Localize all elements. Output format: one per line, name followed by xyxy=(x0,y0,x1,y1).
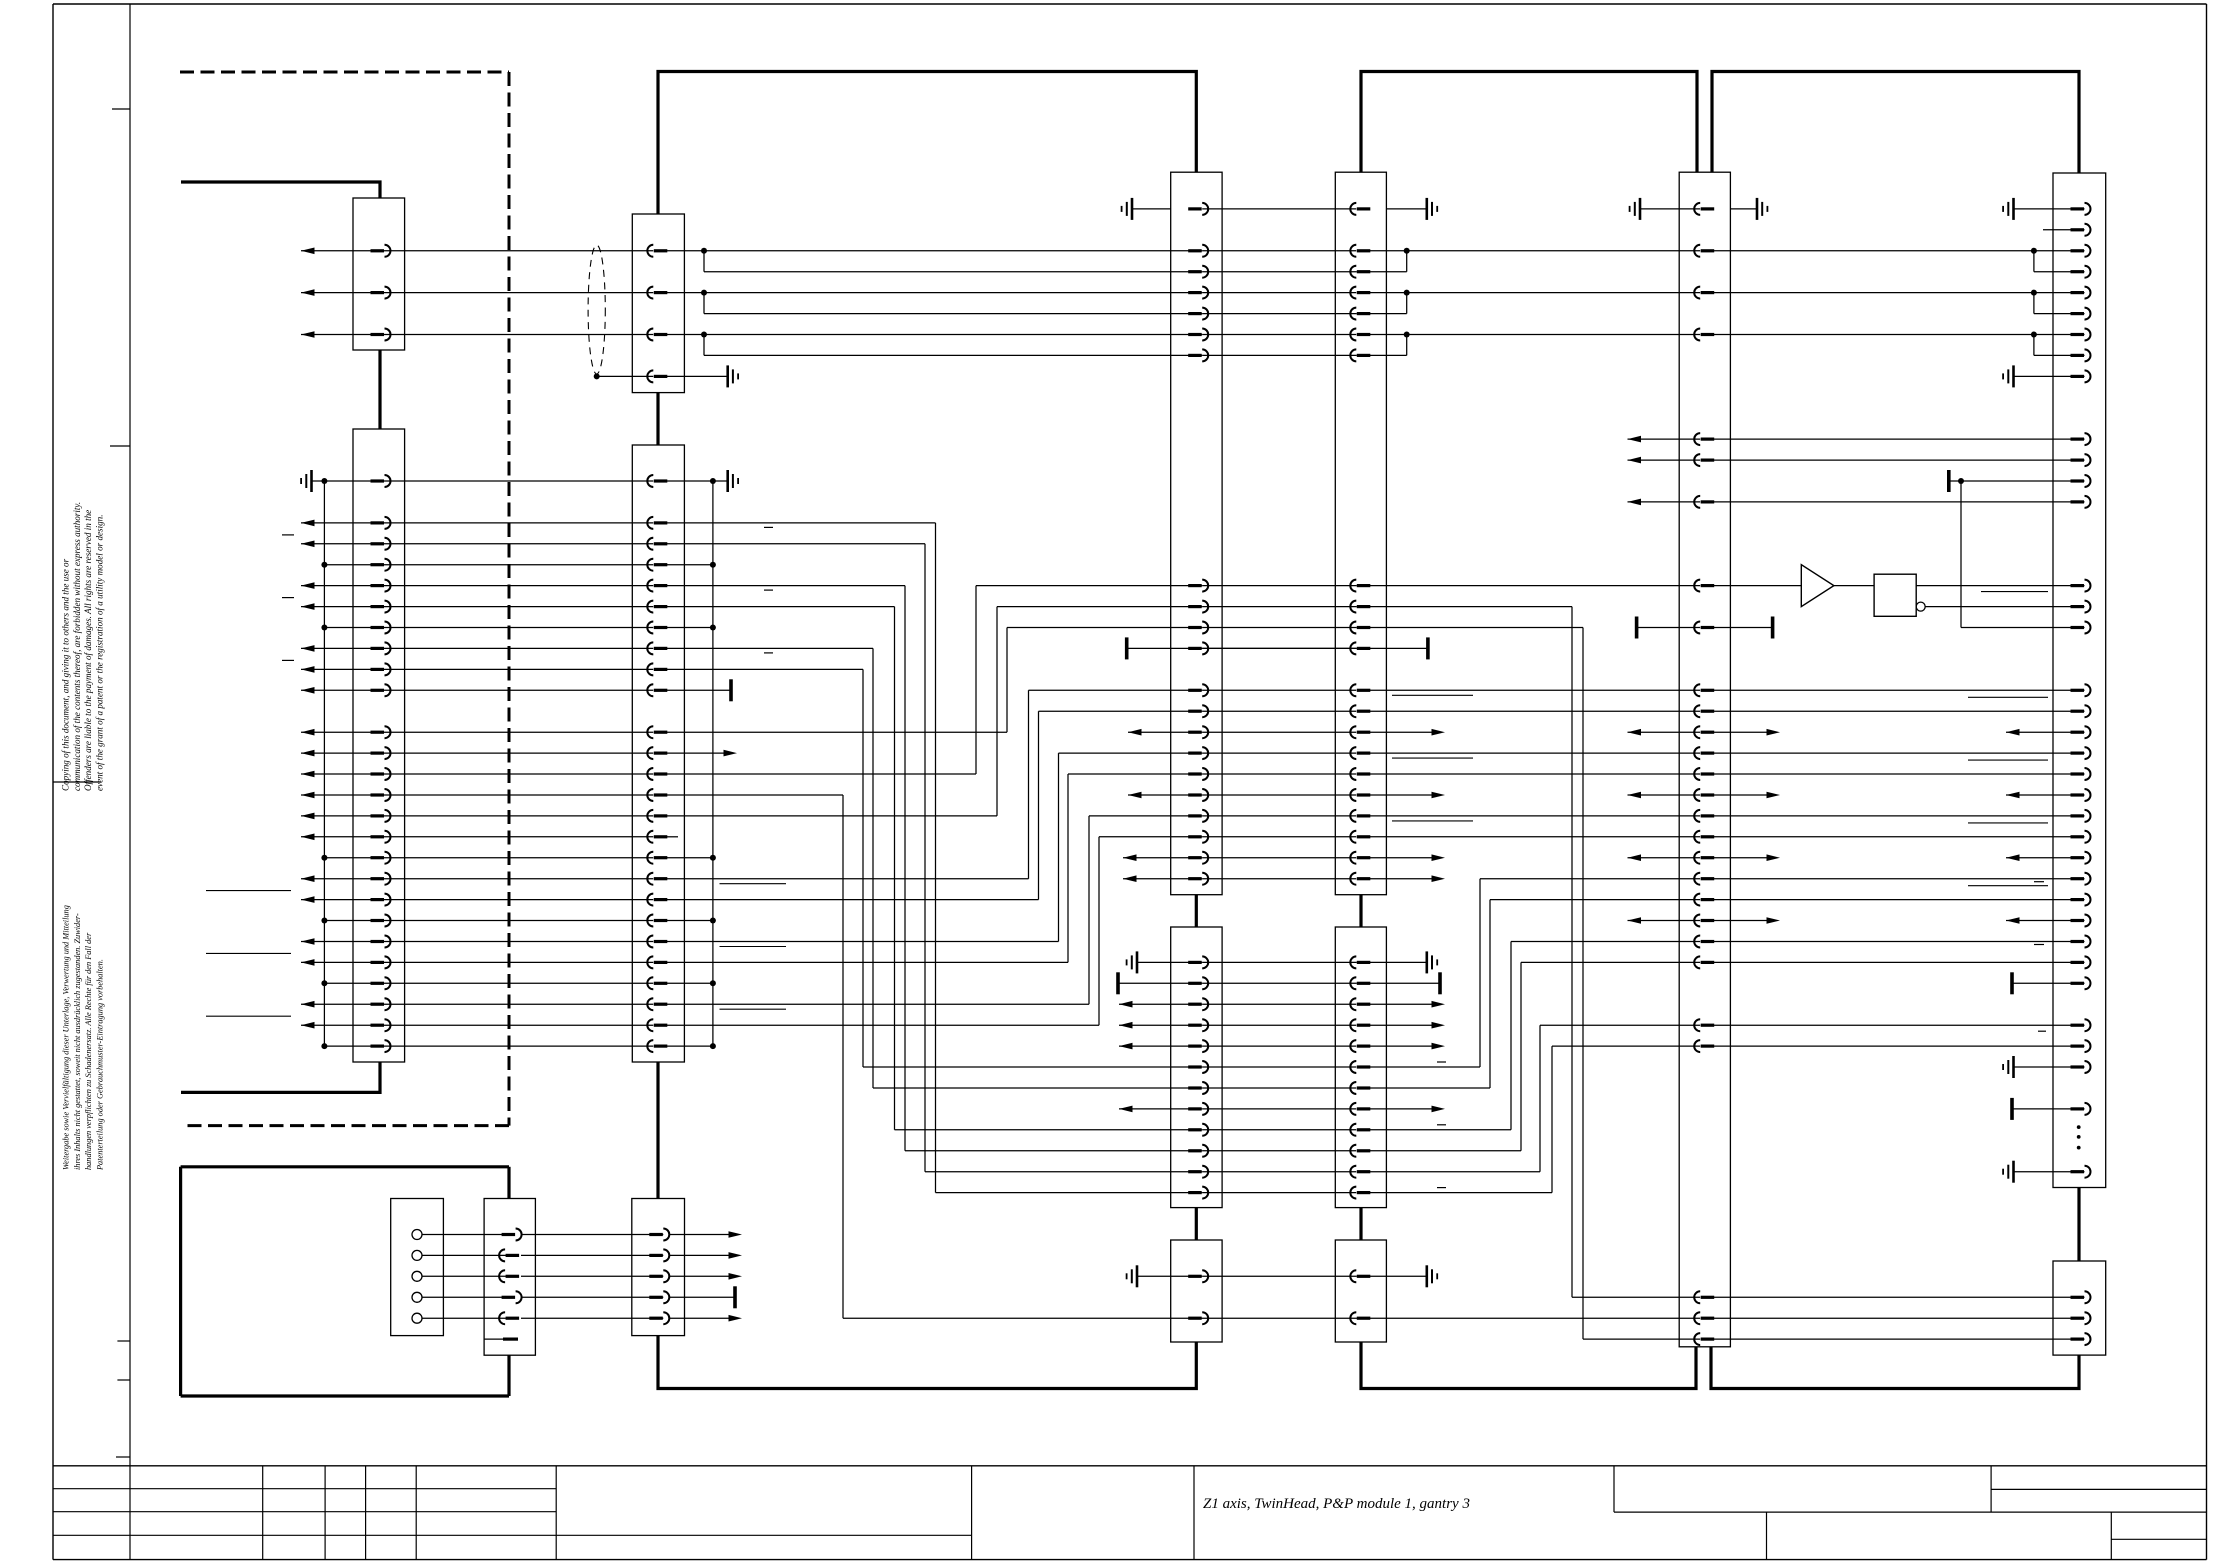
wire X1 row 23 arrow xyxy=(301,959,315,966)
wire X1 row 20 arrow xyxy=(301,896,315,903)
wire X1-X2 row 7 xyxy=(385,627,654,629)
wire XC-XD row 26 xyxy=(1713,1024,2084,1026)
wire jog -7 to -6 xyxy=(703,335,705,356)
wire X1-X2 row 12 xyxy=(385,731,654,733)
ground right of X2 row 0 xyxy=(666,480,727,482)
pins X2 top xyxy=(654,249,668,252)
wire XC row 18 right arrow xyxy=(1713,857,1768,859)
wire staircase X2 8 to XA2 29 xyxy=(666,647,873,649)
shield bus right vertical xyxy=(712,481,714,1046)
wire XA-XB row 17 xyxy=(1202,836,1356,838)
wire stub XD -12 xyxy=(2043,229,2085,231)
terminal circle 5 xyxy=(412,1313,422,1323)
terminator XB row 8 right xyxy=(1356,647,1428,649)
wire X1-X2 row 2 xyxy=(385,522,654,524)
pins X2 tall xyxy=(654,479,668,482)
ground left of XD xyxy=(2014,208,2085,210)
wire long net row 15 to row 40 xyxy=(666,794,843,796)
wire XD row 21 left arrow xyxy=(2006,917,2020,924)
pins XB3 xyxy=(1357,1275,1371,1278)
wire XB row 7 downstair xyxy=(1356,627,1583,629)
pins XS2 xyxy=(649,1233,663,1236)
wire XC-XD row 23 xyxy=(1713,961,2084,963)
wire XB2 row 27 arrow xyxy=(1369,1045,1433,1047)
wire X1-X2 row 5 xyxy=(385,585,654,587)
wire XD jog 0 to 7 xyxy=(1960,481,1962,628)
wire jog XB -11 to -10 xyxy=(1406,251,1408,272)
wire XA2-XB2 row 26 xyxy=(1202,1024,1356,1026)
wire XB row 15 arrow stub xyxy=(1369,794,1433,796)
wire X1 row 6 arrow xyxy=(301,603,315,610)
cable bus X2a-X2b xyxy=(656,393,659,445)
wire shield row 4 right xyxy=(666,564,713,566)
wire XS2 row 36 arrow xyxy=(669,1234,731,1236)
terminal circle 1 xyxy=(412,1230,422,1240)
wire jog XC -9 to -8 xyxy=(2033,293,2035,314)
wire shield row 7 right xyxy=(666,627,713,629)
wire X2 row -5 to ground xyxy=(666,375,727,377)
wire XC-XD row -1 xyxy=(1713,459,2084,461)
cable bus X1 to X1b xyxy=(378,350,381,429)
wire XA2-XB2 row 29 xyxy=(1202,1087,1356,1089)
wire staircase X2 20 to XA 11 xyxy=(666,899,1038,901)
wire XB-XC row -7 xyxy=(1369,334,1700,336)
ground left XA2 row 23 xyxy=(1136,951,1139,973)
connector XB2 xyxy=(1335,927,1386,1208)
wire XA row 12 arrow stub xyxy=(1128,729,1142,736)
wire XA2 row 25 arrow xyxy=(1119,1001,1133,1008)
wire X1-X2 row 4 xyxy=(385,564,654,566)
connector XA tall xyxy=(1171,172,1222,895)
wire X1-X2 row 22 xyxy=(385,941,654,943)
connector XC xyxy=(1679,172,1730,1347)
wire X1 row 26 arrow xyxy=(301,1022,315,1029)
svg-text:Patenterteilung oder Gebrauchm: Patenterteilung oder Gebrauchmuster-Eint… xyxy=(95,959,104,1171)
label underline row 16 xyxy=(1392,820,1473,822)
wire XS2 row 38 arrow xyxy=(669,1275,731,1277)
wire XB row 12 arrow stub xyxy=(1369,731,1433,733)
svg-text:Z1 axis, TwinHead, P&P module: Z1 axis, TwinHead, P&P module 1, gantry … xyxy=(1203,1496,1470,1512)
title block xyxy=(53,1465,2207,1467)
wire X1 row 14 arrow xyxy=(301,771,315,778)
wire XA2-XB2 row 30 xyxy=(1202,1108,1356,1110)
wire XA-XB row 14 xyxy=(1202,773,1356,775)
wire XA2-XB2 row 31 xyxy=(1202,1129,1356,1131)
wire U2-XD row 6 xyxy=(1925,606,2084,608)
connector XS2 xyxy=(632,1199,685,1336)
wire XB2 row 25 arrow xyxy=(1369,1003,1433,1005)
wire XB-XC row 13 xyxy=(1369,752,1700,754)
pins XS1 xyxy=(502,1233,515,1236)
bottom bus right segment xyxy=(1711,1347,2079,1389)
pins XA3 xyxy=(1188,1275,1202,1278)
wire XD row 18 left arrow xyxy=(2006,854,2020,861)
polarity dash marks left xyxy=(282,534,294,536)
wire jog XC -11 to -10 xyxy=(2033,251,2035,272)
wire shield row 18 left xyxy=(324,857,384,859)
buffer U1 xyxy=(1801,565,1834,607)
wire staircase X2 23 to XA 14 xyxy=(666,961,1068,963)
wire XA2 row 27 arrow xyxy=(1119,1043,1133,1050)
wire XS1-XS2 row 36 xyxy=(521,1234,663,1236)
label underline row 13 xyxy=(1392,757,1473,759)
wire shield row 4 left xyxy=(324,564,384,566)
wire X1-X2 row 13 xyxy=(385,752,654,754)
wire staircase X2 3 to XA2 33 xyxy=(666,543,925,545)
cable bus T2 top xyxy=(1361,72,1697,173)
wire XB row 6 downstair xyxy=(1356,606,1572,608)
pin XS1 row 41 spare xyxy=(484,1338,503,1340)
svg-text:ihres Inhalts nicht gestattet,: ihres Inhalts nicht gestattet, soweit ni… xyxy=(73,913,82,1170)
connector XB tall xyxy=(1335,172,1386,895)
svg-text:event of the grant of a patent: event of the grant of a patent or the re… xyxy=(94,515,104,792)
wire XD row 15 left arrow xyxy=(2006,792,2020,799)
connector XD xyxy=(2053,173,2106,1188)
wire XC-XD row 13 xyxy=(1713,752,2084,754)
wire X1-X2 row 19 xyxy=(385,878,654,880)
pins XB2 xyxy=(1357,961,1371,964)
wire X1-X2 row 6 xyxy=(385,606,654,608)
wire staircase X2 9 to XA2 28 xyxy=(666,668,863,670)
cable bus XA stubs xyxy=(1195,895,1198,927)
label underline row 5 xyxy=(1981,591,2048,593)
wire XB-XC row -9 xyxy=(1369,292,1700,294)
ground left of XC xyxy=(1640,208,1700,210)
wire staircase X2 25 to XA 16 xyxy=(666,1003,1089,1005)
wire XC-XD row -9 xyxy=(1713,292,2084,294)
wire buffer to U2 xyxy=(1834,585,1874,587)
shield capsule dashed xyxy=(588,245,605,374)
wire XA2-XB2 row 28 xyxy=(1202,1066,1356,1068)
pins XD2 xyxy=(2071,1296,2085,1299)
wire XA row 19 arrow stub xyxy=(1123,875,1137,882)
connector X2 tall xyxy=(632,445,684,1062)
wire X1-X2 row 21 xyxy=(385,920,654,922)
wire X2-XA row -9 xyxy=(666,292,1202,294)
label lines far left xyxy=(206,890,291,892)
terminator XD row 0 xyxy=(1947,470,1951,492)
wire XA2-XB2 row 27 xyxy=(1202,1045,1356,1047)
wire X2-XA row -11 xyxy=(666,250,1202,252)
wire XC row -1 arrow stub xyxy=(1628,457,1642,464)
connector XS1 xyxy=(484,1199,535,1356)
wire X1 row 8 arrow xyxy=(301,645,315,652)
wire staircase X2 22 to XA 13 xyxy=(666,941,1058,943)
wire staircase XB2 34 to XC 27 xyxy=(1369,1192,1552,1194)
svg-text:handlungen verpflichten zu Sch: handlungen verpflichten zu Schadenersatz… xyxy=(84,932,93,1170)
wire XC-XD row 16 xyxy=(1713,815,2084,817)
wire XB row 18 arrow stub xyxy=(1369,857,1433,859)
wire X1-X2 row 26 xyxy=(385,1024,654,1026)
wire staircase XB2 33 to XC 26 xyxy=(1369,1171,1540,1173)
wire XS1-XS2 row 38 xyxy=(521,1275,663,1277)
wire X1-X2 row 9 xyxy=(385,668,654,670)
wire shield row 24 right xyxy=(666,982,713,984)
wire U2-XD row 5 xyxy=(1916,585,2084,587)
wire XB row 19 arrow stub xyxy=(1369,878,1433,880)
wire X1 row 2 arrow xyxy=(301,520,315,527)
cable bus X1b elbow xyxy=(181,1062,380,1092)
svg-text:Weitergabe sowie Vervielfältig: Weitergabe sowie Vervielfältigung dieser… xyxy=(62,905,71,1170)
wire staircase XB2 28 to XC 19 xyxy=(1369,1066,1480,1068)
wire shield row 24 left xyxy=(324,982,384,984)
cable bus T1 top xyxy=(658,72,1196,215)
ground left of XA xyxy=(1132,208,1171,210)
wire shield row 7 left xyxy=(324,627,384,629)
connector XD2 xyxy=(2053,1261,2106,1355)
wire XC-XD row 1 xyxy=(1713,501,2084,503)
wire X1 row 17 arrow xyxy=(301,834,315,841)
wire jog XB -9 to -8 xyxy=(1406,293,1408,314)
wire circle to XS1 row 40 xyxy=(422,1317,509,1319)
bottom bus middle segment xyxy=(1361,1342,1696,1389)
wire XC-XD row -7 xyxy=(1713,334,2084,336)
wire XA2-XB2 row 32 xyxy=(1202,1150,1356,1152)
wire X1-X2 row 20 xyxy=(385,899,654,901)
connector X2 top xyxy=(632,214,684,393)
wire staircase X2 14 to XA 5 xyxy=(666,773,976,775)
cable bus XD stub xyxy=(2077,1188,2080,1262)
wire XC-XD row 10 xyxy=(1713,689,2084,691)
wire XC-XD row 17 xyxy=(1713,836,2084,838)
wire row -13 XA-XB xyxy=(1202,208,1356,210)
wire XA2 row 30 arrow xyxy=(1119,1106,1133,1113)
cable bus left to connector X1 xyxy=(181,182,380,198)
wire XS1-XS2 row 40 xyxy=(521,1317,663,1319)
cable bus T3 top xyxy=(1712,72,2079,174)
wire circle to XS1 row 37 xyxy=(422,1254,509,1256)
wire X1 pin row -11 with arrow xyxy=(301,248,315,255)
wire X1 row 16 arrow xyxy=(301,813,315,820)
wire XC-XD2 row 39 xyxy=(1713,1296,2084,1298)
wire XC row 12 right arrow xyxy=(1713,731,1768,733)
wire XA2 row 26 arrow xyxy=(1119,1022,1133,1029)
cable bus XB stubs xyxy=(1359,895,1362,927)
wire shield row 21 left xyxy=(324,920,384,922)
wire jog -11 to -10 xyxy=(703,251,705,272)
terminator XS2 row 39 xyxy=(669,1296,735,1298)
wire X1 row 10 arrow xyxy=(301,687,315,694)
wire staircase XB2 31 to XC 22 xyxy=(1369,1129,1511,1131)
wire X1-X2 row 18 xyxy=(385,857,654,859)
ground left XA3 row 38 xyxy=(1136,1265,1139,1287)
pins XA xyxy=(1188,207,1202,210)
ground XD row 28 xyxy=(2012,1056,2015,1078)
wire X1 row 25 arrow xyxy=(301,1001,315,1008)
wire jog XC -7 to -6 xyxy=(2033,335,2035,356)
wire circle to XS1 row 39 xyxy=(422,1296,509,1298)
wire X1-X2 row 3 xyxy=(385,543,654,545)
wire XC row 1 arrow stub xyxy=(1628,499,1642,506)
wire XA3-XB3 row 38 xyxy=(1202,1275,1356,1277)
wire XB2 row 26 arrow xyxy=(1369,1024,1433,1026)
terminator XD row 30 xyxy=(2010,1098,2014,1120)
ground right of XC xyxy=(1730,208,1757,210)
connector X1 top xyxy=(353,198,405,350)
wire shield row 18 right xyxy=(666,857,713,859)
wire XS2 row 37 arrow xyxy=(669,1254,731,1256)
ground left of X1 row 0 xyxy=(310,470,313,492)
wire X1-X2 row 15 xyxy=(385,794,654,796)
ground right XB3 row 38 xyxy=(1356,1275,1427,1277)
shield drain junction xyxy=(594,373,600,379)
wire X1 pin row -7 with arrow xyxy=(301,331,315,338)
label underline row 10 xyxy=(1392,694,1473,696)
wire XC-XD row -11 xyxy=(1713,250,2084,252)
wire X1 row 5 arrow xyxy=(301,582,315,589)
inverter bubble U2 xyxy=(1916,602,1925,611)
wire X1-X2 row -11 xyxy=(385,250,654,252)
terminal circle 4 xyxy=(412,1292,422,1302)
wire XB-XC row 14 xyxy=(1369,773,1700,775)
wire shield row 27 left xyxy=(324,1045,384,1047)
terminal strip circles box xyxy=(391,1199,444,1336)
wire XC to buffer xyxy=(1713,585,1801,587)
wire XA-XB row 11 xyxy=(1202,710,1356,712)
pins X1 top xyxy=(371,249,385,252)
wire XA-XB row 16 xyxy=(1202,815,1356,817)
wire staircase X2 16 to XA 6 xyxy=(666,815,997,817)
logic box U2 xyxy=(1874,574,1916,616)
wire XB-XC row 11 xyxy=(1369,710,1700,712)
wire XC row -2 arrow stub xyxy=(1628,436,1642,443)
wire XC-XD row 20 xyxy=(1713,899,2084,901)
wire XS1-XS2 row 37 xyxy=(521,1254,663,1256)
wire staircase X2 19 to XA 10 xyxy=(666,878,1028,880)
wire X1 row 12 arrow xyxy=(301,729,315,736)
ground right XB2 row 23 xyxy=(1356,961,1427,963)
wire X1 row 3 arrow xyxy=(301,541,315,548)
polarity dash marks right of X2 xyxy=(764,526,773,528)
wire X2-XA row -7 xyxy=(666,334,1202,336)
wire XS1-XS2 row 39 xyxy=(521,1296,663,1298)
wire XA-XB row 18 xyxy=(1202,857,1356,859)
wire shield row 21 right xyxy=(666,920,713,922)
terminator XD row 24 xyxy=(2010,972,2014,994)
ground right of XB xyxy=(1386,208,1426,210)
wire XB-XC row 16 xyxy=(1369,815,1700,817)
wire XC-XD row 14 xyxy=(1713,773,2084,775)
wire XA-XB row 15 xyxy=(1202,794,1356,796)
wire X1-X2 row 24 xyxy=(385,982,654,984)
pins XB xyxy=(1357,207,1371,210)
wire XC-XD row 27 xyxy=(1713,1045,2084,1047)
wire X1-X2 row 16 xyxy=(385,815,654,817)
svg-text:Copying of this document, and: Copying of this document, and giving it … xyxy=(61,558,71,791)
terminator X2 row 10 xyxy=(666,689,731,691)
wire staircase X2 12 to XA 7 xyxy=(666,731,1007,733)
continuation dots XD xyxy=(2077,1125,2081,1129)
pins XA2 xyxy=(1188,961,1202,964)
wire X1 row 15 arrow xyxy=(301,792,315,799)
terminal circle 2 xyxy=(412,1250,422,1260)
wire XA row 18 arrow stub xyxy=(1123,854,1137,861)
terminator left XA2 row 24 xyxy=(1116,972,1120,994)
wire XC row 12 arrow stub xyxy=(1628,729,1642,736)
wire XC row 21 right arrow xyxy=(1713,920,1768,922)
label dashes XB2 xyxy=(1437,1061,1446,1063)
wire XA-XB row 6 xyxy=(1202,606,1356,608)
shield bus left vertical xyxy=(323,481,325,1046)
frame zone ticks xyxy=(112,108,130,110)
wire X1-X2 row 0 xyxy=(385,480,654,482)
label underlines near XD xyxy=(1968,696,2048,698)
wires XA-XB top rows xyxy=(1202,250,1356,252)
terminator right XB2 row 24 xyxy=(1356,982,1440,984)
wire XC-XD2 row 40 xyxy=(1713,1317,2084,1319)
wire staircase X2 2 to XA2 34 xyxy=(666,522,935,524)
ground XD row 33 xyxy=(2012,1161,2015,1183)
wire X1-X2 row 10 xyxy=(385,689,654,691)
device box bottom left xyxy=(181,1165,509,1168)
wire XA-XB row 12 xyxy=(1202,731,1356,733)
connector XA3 xyxy=(1171,1240,1222,1342)
wire staircase X2 5 to XA2 32 xyxy=(666,585,905,587)
terminator XC row 7 left xyxy=(1635,617,1639,639)
wire XC-XD2 row 41 xyxy=(1713,1338,2084,1340)
wire XA-XB row 8 xyxy=(1202,647,1356,649)
wire X1-X2 row -9 xyxy=(385,292,654,294)
connector XA2 xyxy=(1171,927,1222,1208)
wire X1 row 19 arrow xyxy=(301,875,315,882)
wire XA-XB row 7 xyxy=(1202,627,1356,629)
wire X1-X2 row 25 xyxy=(385,1003,654,1005)
terminal circle 3 xyxy=(412,1271,422,1281)
wire X1-X2 row 14 xyxy=(385,773,654,775)
wire staircase XB2 32 to XC 23 xyxy=(1369,1150,1521,1152)
label underlines right of bus xyxy=(720,883,787,885)
wire XC row 15 arrow stub xyxy=(1628,792,1642,799)
wire jog XB -7 to -6 xyxy=(1406,335,1408,356)
pins XD xyxy=(2071,207,2085,210)
wire XC-XD row 19 xyxy=(1713,878,2084,880)
wire XA2-XB2 row 34 xyxy=(1202,1192,1356,1194)
wire X2 row 13 arrow stub xyxy=(666,752,724,754)
wire XA-XB row 10 xyxy=(1202,689,1356,691)
wire XD row 0 xyxy=(1949,480,2085,482)
ground XD row -5 xyxy=(2012,365,2015,387)
wire X1-X2 row -7 xyxy=(385,334,654,336)
wire XB-XC row 17 xyxy=(1369,836,1700,838)
wire shield row 27 right xyxy=(666,1045,713,1047)
svg-text:Offenders are liable to the pa: Offenders are liable to the payment of d… xyxy=(83,510,93,791)
wire XC row 15 right arrow xyxy=(1713,794,1768,796)
wire X1 row 13 arrow xyxy=(301,750,315,757)
wire circle to XS1 row 38 xyxy=(422,1275,509,1277)
wire XB-XC row -11 xyxy=(1369,250,1700,252)
wire XA-XB row 8 xyxy=(1202,647,1356,649)
wire circle to XS1 row 36 xyxy=(422,1234,509,1236)
wire staircase XB2 29 to XC 20 xyxy=(1369,1087,1490,1089)
pins X1 tall xyxy=(371,479,385,482)
wire XC-XD row -2 xyxy=(1713,438,2084,440)
border frame xyxy=(53,3,2207,5)
cabinet boundary dashed xyxy=(180,71,509,74)
wire X1-X2 row 23 xyxy=(385,961,654,963)
wire jog -9 to -8 xyxy=(703,293,705,314)
wire XA-XB row 19 xyxy=(1202,878,1356,880)
wire X1-X2 row 8 xyxy=(385,647,654,649)
wire XA-XB row 13 xyxy=(1202,752,1356,754)
wire X1 pin row -9 with arrow xyxy=(301,289,315,296)
wire X1-X2 row 27 xyxy=(385,1045,654,1047)
wire XC row 21 arrow stub xyxy=(1628,917,1642,924)
wire staircase X2 6 to XA2 31 xyxy=(666,606,894,608)
wire XA2-XB2 row 23 xyxy=(1202,961,1356,963)
wire XA2-XB2 row 24 xyxy=(1202,982,1356,984)
pins XC xyxy=(1701,207,1715,210)
bottom bus left segment xyxy=(658,1336,1196,1389)
